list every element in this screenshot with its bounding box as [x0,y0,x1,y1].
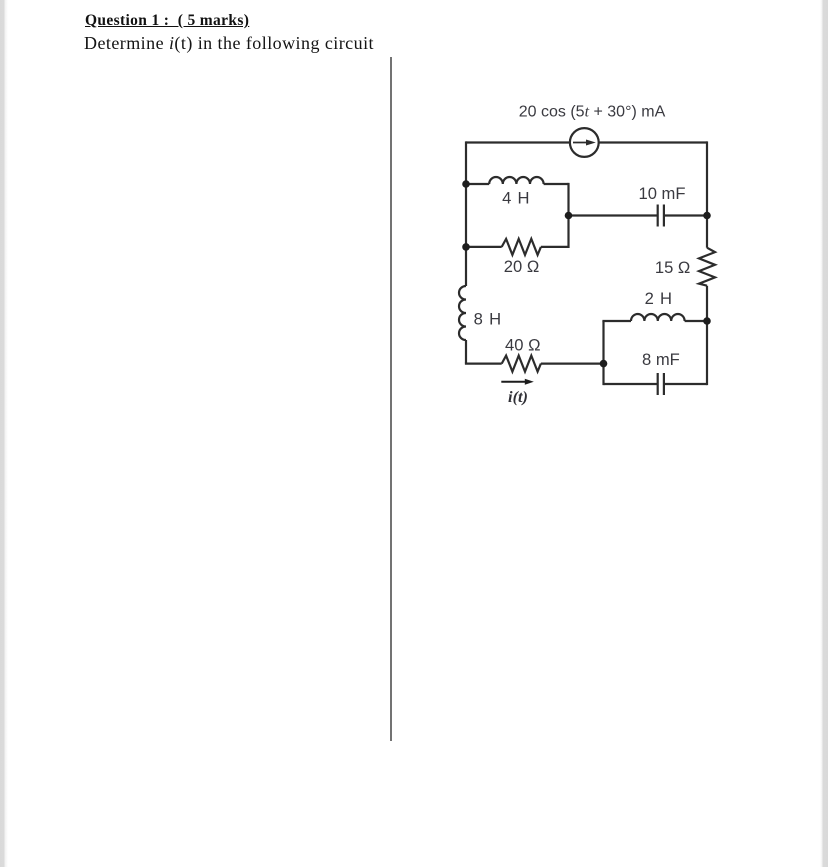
wire left rail lower [465,340,467,364]
wire 4H branch right lead [544,183,569,185]
inductor L3 8H [459,286,466,340]
wire right rail upper [706,141,708,247]
wire 8mF right lead [664,383,707,385]
capacitor C2 8mF [658,373,664,395]
node C [565,212,573,220]
wire middle rail [567,183,569,248]
label 8 mF [642,350,680,369]
wire top-left (corner to source) [466,141,570,143]
wire 10mF right lead [664,214,707,216]
svg-text:i(t): i(t) [508,387,528,406]
right page edge [820,0,828,867]
wire left rail upper [465,141,467,286]
wire 20ohm left lead [466,246,502,248]
node D [703,212,711,220]
label i(t) [508,387,528,406]
question body text [84,33,374,54]
svg-text:20 Ω: 20 Ω [504,257,539,276]
wire 4H branch left lead [466,183,489,185]
current source I1 [570,128,599,157]
vertical divider rule [390,57,392,741]
wire 40ohm to box [541,363,604,365]
current arrow i(t) [501,379,534,385]
wire 20ohm right lead [541,246,569,248]
svg-text:8 H: 8 H [474,309,502,328]
label 8 H [474,309,502,328]
resistor R1 20ohm [502,239,541,255]
label 2 H [645,289,673,308]
svg-text:8 mF: 8 mF [642,350,680,369]
question heading [85,12,249,30]
label 20 ohm [504,257,539,276]
inductor L2 2H [631,314,685,321]
label source value [519,104,666,121]
left page edge [0,0,8,867]
wire 2H left lead [602,320,631,322]
resistor R3 40ohm [502,356,541,372]
wire 10mF left lead [569,214,658,216]
label 4 H [502,188,530,207]
resistor R2 15ohm [699,248,715,286]
capacitor C1 10mF [658,205,664,227]
label 10 mF [638,184,685,203]
wire right rail lower [706,286,708,385]
wire 2H right lead [685,320,707,322]
wire 8mF left lead [604,383,658,385]
node A [462,180,470,188]
wire top-right (source to corner) [599,141,707,143]
svg-text:10 mF: 10 mF [638,184,685,203]
svg-text:15 Ω: 15 Ω [655,258,690,277]
node E [703,317,711,325]
svg-text:4 H: 4 H [502,188,530,207]
svg-text:2 H: 2 H [645,289,673,308]
label 15 ohm [655,258,690,277]
node F [600,360,608,368]
svg-text:20 cos (5t + 30°) mA: 20 cos (5t + 30°) mA [519,104,666,121]
wire box left edge [602,321,604,385]
inductor L1 4H [489,177,543,184]
node B [462,243,470,251]
label 40 ohm [505,335,540,354]
svg-text:40 Ω: 40 Ω [505,335,540,354]
wire bottom left lead [466,362,502,363]
